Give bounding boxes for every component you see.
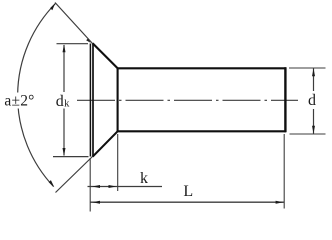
arc arrowhead bottom xyxy=(49,180,55,187)
shank bottom edge xyxy=(117,130,286,132)
dk bottom extension line xyxy=(53,156,89,158)
svg-text:a±2°: a±2° xyxy=(4,92,34,109)
k dimension line xyxy=(88,186,163,188)
k arrow right xyxy=(109,185,117,188)
d dimension line (vertical, broken by label) xyxy=(313,69,315,92)
arc arrowhead top xyxy=(50,3,55,11)
head cone bottom slant xyxy=(93,131,118,156)
head cone top slant xyxy=(93,43,118,68)
k left extension line (head face, shared with L) xyxy=(89,158,91,212)
upper leg arrowhead at head corner xyxy=(86,38,90,42)
angle dimension arc a xyxy=(18,4,56,187)
svg-text:k: k xyxy=(140,170,148,187)
L arrow right xyxy=(276,201,284,204)
angle leg lower (extension of bottom cone surface) xyxy=(56,157,93,193)
L right extension line (shank end) xyxy=(283,134,285,209)
head/shank junction line xyxy=(117,68,119,133)
dk dimension line (vertical, broken by label) xyxy=(63,45,65,92)
dk top extension line xyxy=(57,43,89,45)
d arrow up xyxy=(312,68,315,76)
rivet head flat face outer line xyxy=(89,44,91,157)
dk arrow down xyxy=(63,148,66,156)
shank top edge xyxy=(117,67,286,69)
k arrow left xyxy=(92,185,100,188)
d top extension line xyxy=(289,67,326,69)
shank right end face xyxy=(284,67,286,132)
mask under label a xyxy=(3,93,36,109)
svg-text:L: L xyxy=(183,183,193,200)
L arrow left xyxy=(92,201,100,204)
dk arrow up xyxy=(63,44,66,52)
svg-text:d: d xyxy=(308,92,316,109)
d arrow down xyxy=(312,126,315,134)
svg-text:d: d xyxy=(56,93,64,110)
k right extension line (from cone-shank junction) xyxy=(117,134,119,191)
rivet head flat face inner line xyxy=(92,44,94,157)
angle leg upper (extension of top cone surface) xyxy=(55,3,93,44)
svg-text:k: k xyxy=(64,99,70,110)
L dimension line xyxy=(90,201,284,203)
d bottom extension line xyxy=(290,133,326,135)
centerline (dash-dot axis) xyxy=(77,99,298,101)
